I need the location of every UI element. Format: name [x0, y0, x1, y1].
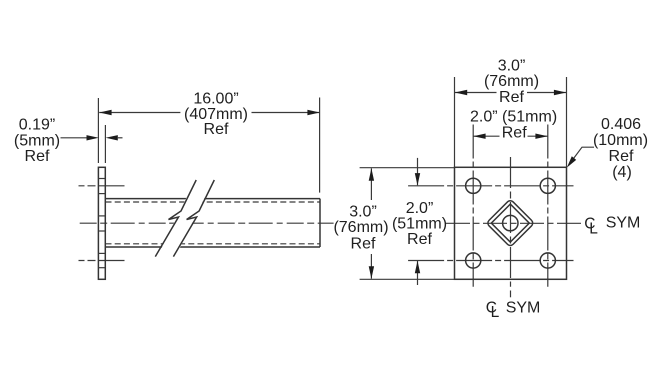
3.0 vert dim: top extension line: [360, 167, 455, 169]
svg-text:SYM: SYM: [606, 215, 641, 232]
svg-text:Ref: Ref: [204, 121, 229, 138]
hole bottom-left: [466, 253, 481, 268]
top hole centerline (left view): [79, 185, 125, 187]
tube main centerline: [80, 222, 334, 224]
0.406 hole leader tail: [570, 147, 595, 164]
0.19 right arrow (points left): [106, 135, 118, 140]
svg-text:Ref: Ref: [502, 124, 527, 141]
tube cross-section outer diamond: [486, 199, 534, 247]
tube bottom inner hidden line: [106, 243, 321, 245]
0.406 leader arrow: [567, 156, 576, 167]
0.19 dim: right extension line: [104, 125, 106, 163]
flange plate (side view): [98, 167, 105, 279]
svg-text:(76mm): (76mm): [333, 219, 388, 236]
tube bottom outer line: [106, 246, 321, 248]
svg-text:Ref: Ref: [351, 236, 376, 253]
flange center hole lower edge: [98, 230, 105, 232]
svg-text:3.0”: 3.0”: [349, 204, 377, 221]
3.0 top dim line right segment: [527, 92, 566, 94]
hole row centerline bottom: [408, 260, 573, 262]
3.0 vert dim: bottom extension line: [360, 278, 455, 280]
3.0 top dim: right extension line: [566, 77, 568, 167]
svg-text:(5mm): (5mm): [14, 132, 60, 149]
svg-text:(51mm): (51mm): [392, 216, 447, 233]
svg-text:0.19”: 0.19”: [19, 117, 55, 134]
flange hole edge line (bottom hole lower): [98, 267, 105, 269]
center pilot circle: [503, 215, 518, 230]
16.00 dim: left extension line: [97, 98, 99, 163]
bottom hole centerline (left view): [79, 260, 125, 262]
flange hole edge line (top hole upper): [98, 178, 105, 180]
2.0 top right arrow: [535, 134, 547, 139]
flange center hole upper edge: [98, 215, 105, 217]
plate outline: [455, 167, 567, 279]
svg-text:2.0”: 2.0”: [406, 200, 434, 217]
break mask: [156, 177, 215, 260]
16.00 left arrow: [99, 110, 111, 115]
svg-text:Ref: Ref: [499, 89, 524, 106]
16.00 dim line left segment: [99, 112, 180, 114]
hole column centerline left: [472, 125, 474, 287]
svg-text:(4): (4): [612, 164, 632, 181]
2.0 vert dim: lower arrow shaft: [417, 261, 419, 285]
svg-text:Ref: Ref: [407, 231, 432, 248]
svg-text:Ref: Ref: [25, 148, 50, 165]
2.0 top dim line left segment: [473, 135, 499, 137]
hole bottom-right: [540, 253, 555, 268]
tube top inner hidden line: [106, 201, 321, 203]
hole column centerline right: [547, 125, 549, 287]
svg-text:SYM: SYM: [506, 299, 541, 316]
2.0 top left arrow: [473, 134, 485, 139]
3.0 vert bottom arrow: [369, 266, 374, 278]
hole top-right: [540, 178, 555, 193]
0.19 left arrow (points right): [87, 135, 99, 140]
flange hole edge line (bottom hole upper): [98, 252, 105, 254]
16.00 dim line right segment: [252, 112, 320, 114]
3.0 top dim: left extension line: [454, 77, 456, 167]
tube cross-section inner diamond: [491, 204, 529, 242]
hole row centerline top: [408, 185, 573, 187]
hole top-left: [466, 178, 481, 193]
tube right end line: [319, 199, 321, 247]
16.00 right arrow: [307, 110, 319, 115]
0.19 leader left tail: [61, 137, 88, 139]
2.0 vert dim: upper arrow shaft: [417, 158, 419, 185]
0.19 right tail: [118, 137, 123, 139]
plate vertical centerline lower dash: [510, 291, 512, 298]
3.0 top left arrow: [455, 90, 467, 95]
svg-text:(10mm): (10mm): [593, 132, 648, 149]
2.0 top dim line right segment: [528, 135, 548, 137]
3.0 vert top arrow: [369, 168, 374, 180]
3.0 top dim line left segment: [455, 92, 497, 94]
3.0 vert dim line upper segment: [370, 168, 372, 200]
svg-text:L: L: [589, 220, 598, 237]
svg-text:2.0” (51mm): 2.0” (51mm): [470, 109, 557, 126]
plate horizontal centerline (SYM): [446, 222, 583, 224]
svg-text:3.0”: 3.0”: [498, 57, 526, 74]
break line right: [173, 180, 214, 257]
break line left: [155, 180, 196, 257]
svg-text:(76mm): (76mm): [484, 73, 539, 90]
3.0 top right arrow: [554, 90, 566, 95]
2.0 vert dim lower arrow (points up): [415, 261, 420, 273]
svg-text:0.406: 0.406: [601, 116, 641, 133]
2.0 vert dim upper arrow (points down): [415, 173, 420, 185]
plate vertical centerline: [510, 157, 512, 287]
flange hole edge line (top hole lower): [98, 193, 105, 195]
svg-text:Ref: Ref: [609, 148, 634, 165]
tube top outer line: [106, 198, 321, 200]
svg-text:L: L: [491, 304, 500, 321]
16.00 dim: right extension line: [319, 98, 321, 193]
3.0 vert dim line lower segment: [370, 254, 372, 279]
